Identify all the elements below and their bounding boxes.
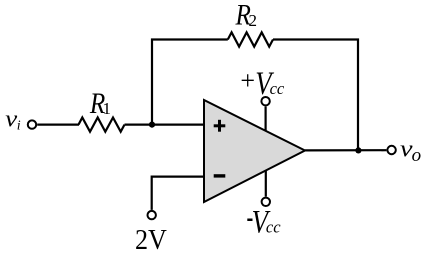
terminal vo bbox=[387, 146, 395, 154]
svg-text:i: i bbox=[17, 118, 21, 133]
op-amp plus mark bbox=[214, 120, 226, 132]
op-amp U1 body bbox=[204, 100, 305, 202]
wire -Vcc supply bbox=[265, 171, 267, 197]
wire R1 to op-amp plus input bbox=[125, 123, 205, 125]
terminal +Vcc bbox=[261, 97, 269, 105]
terminal 2V bbox=[148, 211, 156, 219]
svg-text:cc: cc bbox=[266, 218, 281, 237]
resistor R2 bbox=[228, 32, 273, 46]
resistor R1 bbox=[79, 118, 125, 132]
node junction input bbox=[149, 122, 155, 128]
label +Vcc bbox=[240, 65, 285, 101]
op-amp minus mark bbox=[214, 174, 226, 177]
wire feedback left: junction up and across to R2 bbox=[152, 40, 228, 125]
wire output bbox=[305, 149, 386, 151]
terminal -Vcc bbox=[262, 198, 270, 206]
svg-text:cc: cc bbox=[270, 79, 285, 98]
wire inverting input bbox=[152, 177, 204, 210]
svg-text:1: 1 bbox=[103, 99, 112, 118]
wire input from vi terminal to R1 bbox=[37, 123, 79, 125]
wire +Vcc supply bbox=[265, 106, 267, 131]
svg-text:2V: 2V bbox=[135, 223, 167, 256]
terminal vi bbox=[28, 120, 36, 128]
svg-text:o: o bbox=[412, 145, 422, 166]
label R2 bbox=[235, 0, 257, 31]
label -Vcc bbox=[247, 204, 281, 240]
svg-text:+: + bbox=[240, 66, 255, 95]
svg-text:2: 2 bbox=[249, 11, 258, 30]
wire feedback right: R2 across and down to output bbox=[273, 40, 358, 151]
node junction output bbox=[355, 147, 361, 153]
node label v_o bbox=[400, 134, 421, 166]
label R1 bbox=[89, 86, 111, 120]
node label v_i bbox=[5, 105, 20, 134]
